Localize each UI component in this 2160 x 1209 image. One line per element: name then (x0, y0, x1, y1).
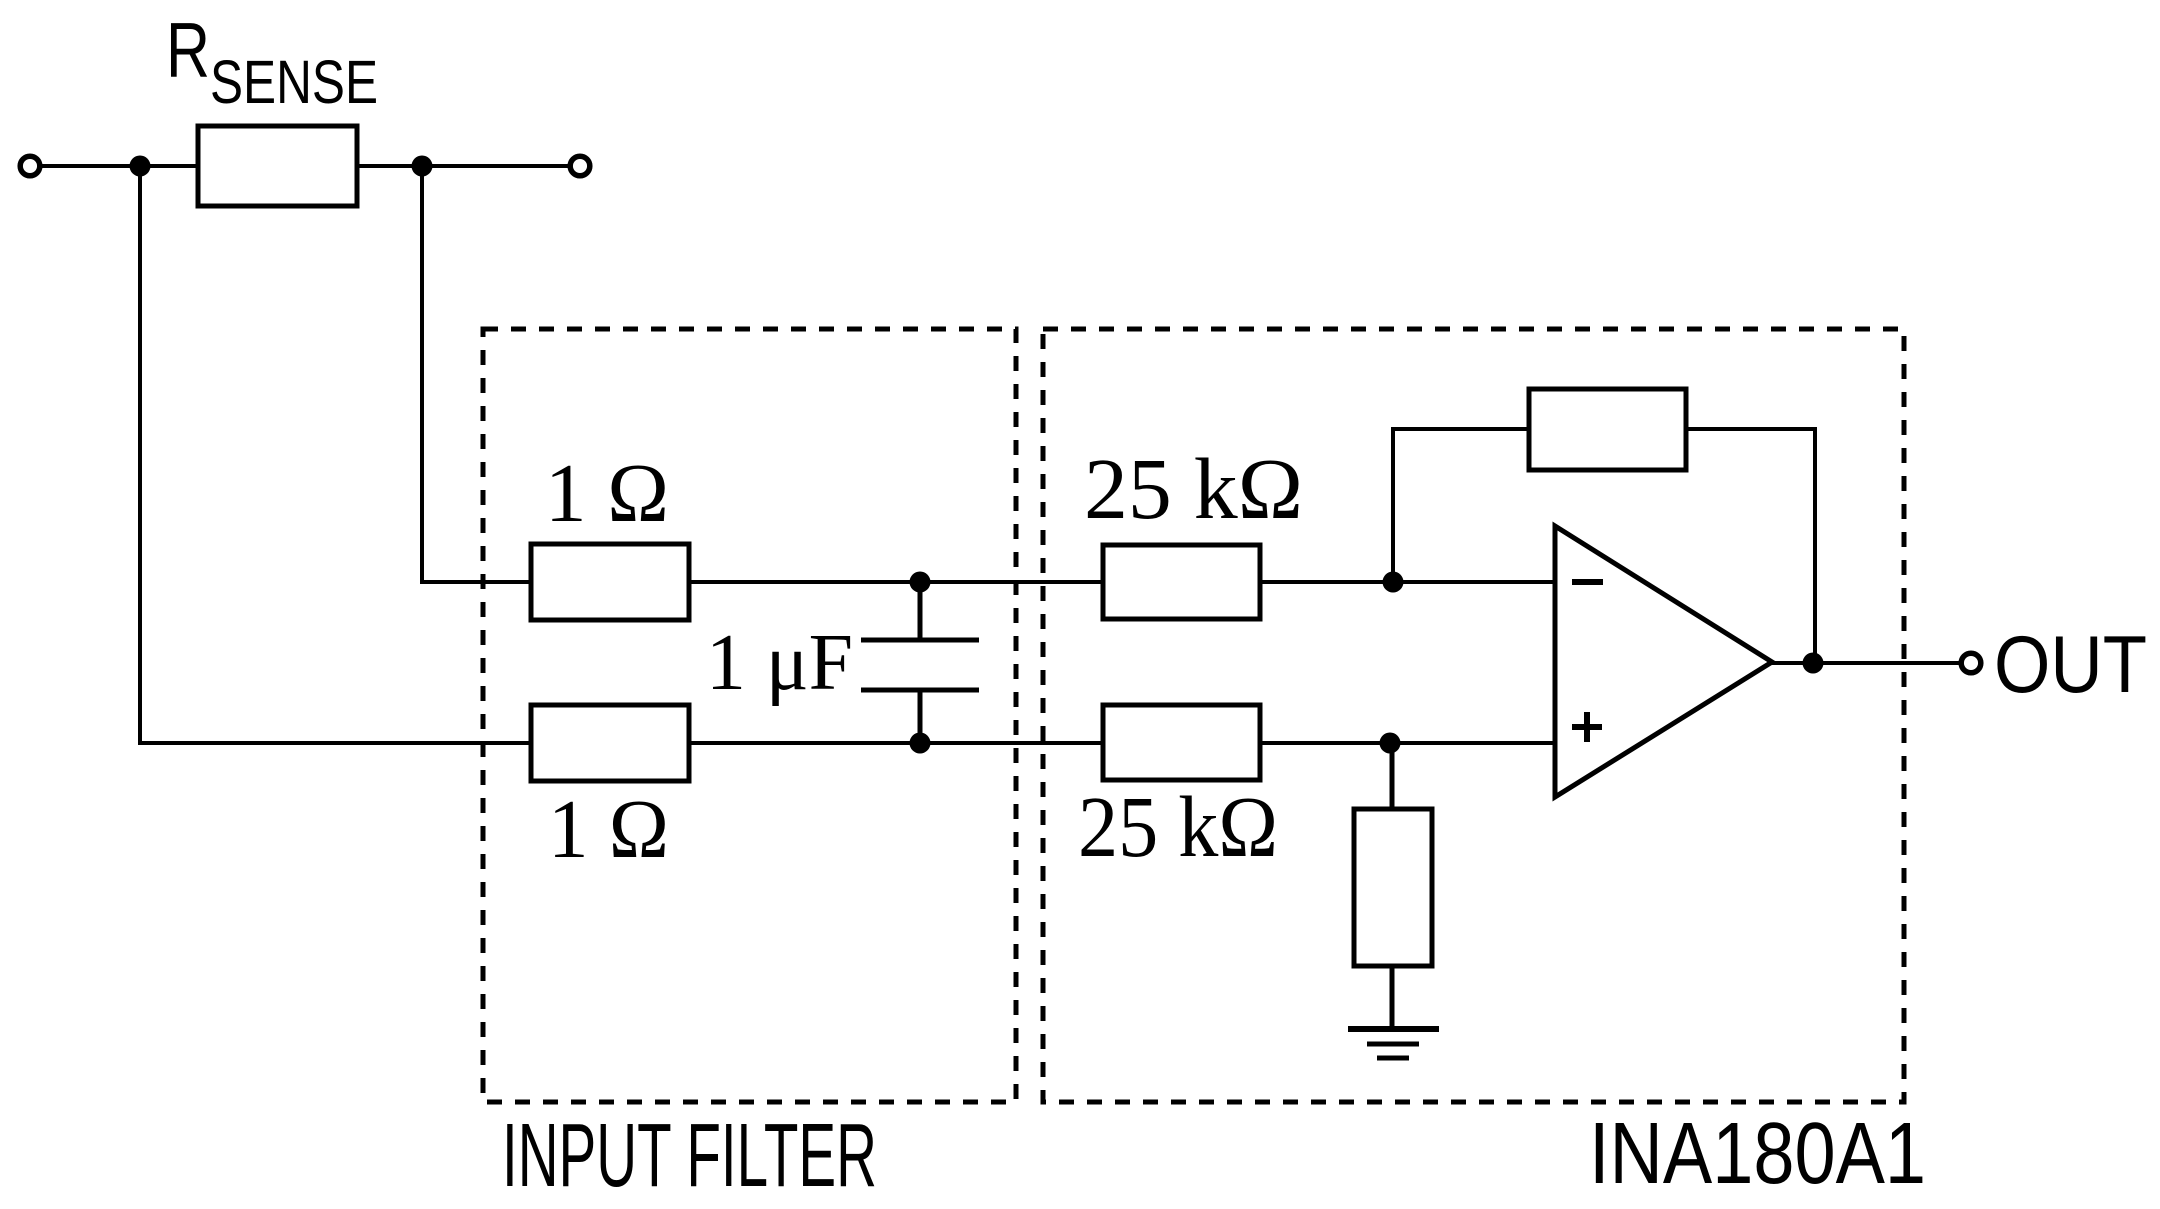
op-amp minus pin mark (1572, 579, 1603, 585)
junction dot output (1803, 653, 1824, 674)
svg-text:INA180A1: INA180A1 (1589, 1105, 1926, 1202)
node OUT terminal (1961, 653, 1981, 673)
resistor R2 1 ohm bottom (531, 705, 689, 781)
ground (1348, 1026, 1439, 1032)
wire gnd resistor top (1390, 743, 1395, 809)
svg-text:25 kΩ: 25 kΩ (1084, 440, 1303, 537)
wire bottom mid (689, 741, 1103, 745)
op-amp U1 (1555, 526, 1772, 797)
junction dot cap bottom (910, 733, 931, 754)
wire top mid (689, 580, 1103, 584)
wire output (1772, 661, 1960, 665)
svg-text:INPUT FILTER: INPUT FILTER (502, 1106, 877, 1206)
box INA180A1 (1043, 329, 1904, 1102)
wire minus input (1260, 580, 1555, 584)
box INPUT FILTER (483, 329, 1016, 1102)
wire feedback left (1393, 429, 1529, 582)
svg-text:R: R (166, 6, 210, 94)
wire feedback right (1686, 429, 1815, 663)
svg-text:OUT: OUT (1994, 620, 2147, 710)
junction dot gnd tap (1380, 733, 1401, 754)
wire top rail right (356, 164, 570, 168)
junction dot feedback tap (1383, 572, 1404, 593)
svg-text:1 Ω: 1 Ω (548, 783, 669, 876)
capacitor C1 1uF (918, 582, 923, 640)
wire top rail left (40, 164, 200, 168)
wire right branch vertical (422, 166, 531, 582)
resistor R3 25k top (1103, 545, 1260, 619)
wire plus input (1260, 741, 1555, 745)
junction dot left of RSENSE (130, 156, 151, 177)
junction dot cap top (910, 572, 931, 593)
resistor R1 1 ohm top (531, 544, 689, 620)
svg-text:1 μF: 1 μF (706, 619, 853, 707)
resistor R5 feedback (1529, 389, 1686, 470)
op-amp plus pin mark (1572, 724, 1602, 730)
svg-text:1 Ω: 1 Ω (545, 447, 669, 540)
resistor RSENSE (198, 126, 357, 206)
node left terminal (20, 156, 40, 176)
svg-text:SENSE: SENSE (210, 48, 378, 116)
resistor R6 gnd (1354, 809, 1432, 966)
node right terminal (570, 156, 590, 176)
wire left branch vertical (140, 166, 531, 743)
wire gnd resistor bottom (1390, 966, 1395, 1029)
svg-text:25 kΩ: 25 kΩ (1078, 778, 1278, 875)
junction dot right of RSENSE (412, 156, 433, 177)
resistor R4 25k bottom (1103, 705, 1260, 780)
